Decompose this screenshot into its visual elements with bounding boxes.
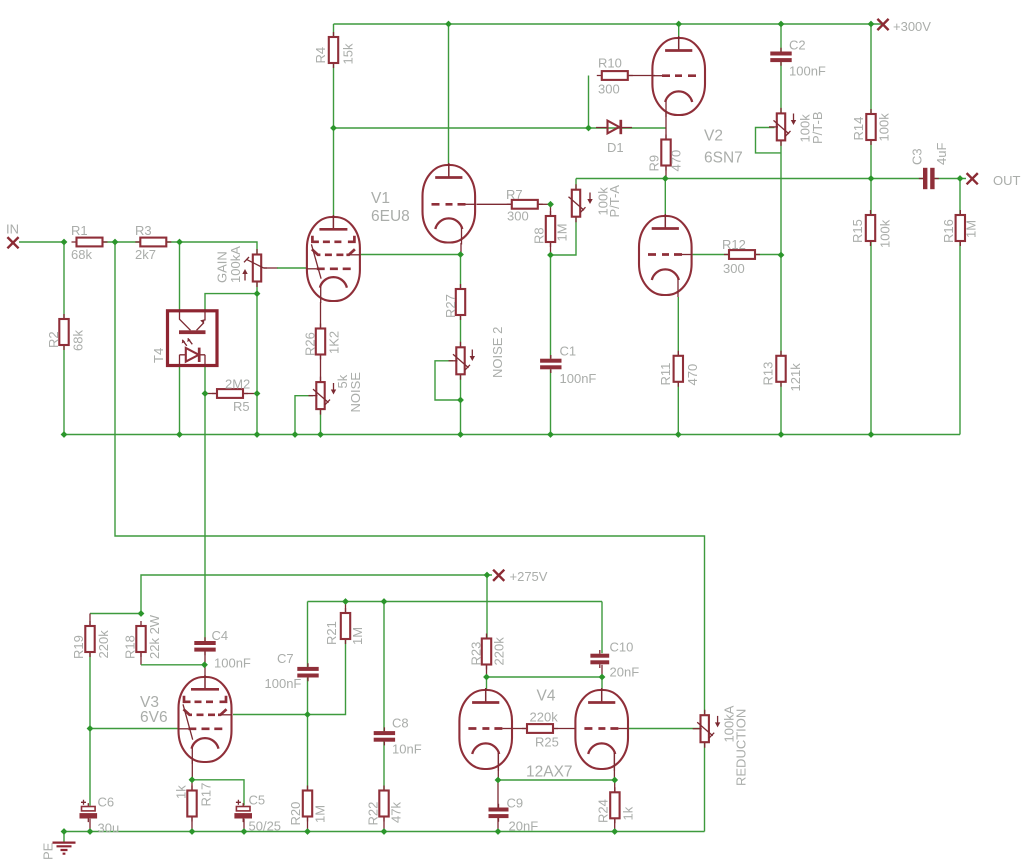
junction C10 / V4R anode bbox=[599, 674, 606, 681]
labels R16 bbox=[941, 219, 979, 243]
junction +275V node bbox=[484, 572, 491, 579]
labels R15 bbox=[850, 219, 893, 248]
wire +275V rail bbox=[90, 575, 492, 614]
wire V1P g3 to R27 node bbox=[360, 254, 461, 256]
potentiometer NOISE 5k bbox=[309, 377, 331, 415]
resistor R11 bbox=[674, 351, 683, 387]
tube V3 (6V6) bbox=[178, 675, 232, 764]
svg-text:C1: C1 bbox=[560, 344, 577, 359]
labels R25 bbox=[530, 710, 559, 750]
resistor R16 bbox=[956, 210, 965, 246]
wire C3 to OUT terminal bbox=[935, 178, 967, 180]
svg-text:+300V: +300V bbox=[893, 19, 931, 34]
svg-text:C2: C2 bbox=[789, 38, 806, 53]
junction V3 cathode node bbox=[189, 776, 196, 783]
svg-text:R2: R2 bbox=[46, 331, 61, 348]
potentiometer NOISE 2 bbox=[449, 342, 471, 380]
terminal OUT bbox=[967, 173, 978, 184]
wire R18 bottom pin bbox=[140, 652, 142, 665]
wire C6 bottom bbox=[89, 819, 91, 832]
labels GAIN pot bbox=[215, 246, 244, 283]
svg-text:R25: R25 bbox=[535, 735, 559, 750]
svg-text:300: 300 bbox=[507, 209, 529, 224]
capacitor C4 100nF bbox=[194, 637, 215, 655]
junction mid bus NOISE loop bbox=[292, 431, 299, 438]
labels R2 bbox=[46, 330, 86, 351]
wire V3 g1 wire bbox=[90, 728, 178, 730]
wire R19 top pin bbox=[89, 614, 91, 627]
junction mid bus NOISE pot bbox=[317, 431, 324, 438]
svg-text:2M2: 2M2 bbox=[225, 377, 250, 392]
svg-text:R5: R5 bbox=[233, 399, 250, 414]
svg-text:100nF: 100nF bbox=[789, 64, 826, 79]
labels R27 bbox=[443, 294, 458, 318]
labels C2 bbox=[789, 38, 826, 79]
adjust arrow P/T-B bbox=[791, 114, 796, 126]
resistor R2 bbox=[59, 314, 68, 350]
wire +275V to R23 bbox=[486, 575, 488, 638]
tube V1 triode section (6EU8) bbox=[423, 163, 476, 245]
svg-text:R19: R19 bbox=[71, 635, 86, 659]
resistor R22 bbox=[379, 786, 388, 822]
svg-text:30u: 30u bbox=[98, 821, 120, 836]
resistor R14 bbox=[866, 109, 875, 145]
potentiometer REDUCTION 100kA bbox=[693, 710, 715, 748]
svg-text:2k7: 2k7 bbox=[135, 247, 156, 262]
junction NOISE2 loop bbox=[457, 397, 464, 404]
resistor R20 bbox=[303, 786, 312, 822]
wire screen rail y601 bbox=[308, 601, 603, 603]
wire GAIN wiper to V1 g1 bbox=[277, 267, 307, 269]
labels R21 bbox=[324, 621, 365, 645]
tube V1 pentode section (6EU8) bbox=[306, 215, 360, 303]
labels R18 bbox=[123, 614, 163, 659]
junction R18/R19 tops bbox=[138, 610, 145, 617]
svg-text:R15: R15 bbox=[850, 219, 865, 243]
labels R4 bbox=[313, 43, 356, 64]
svg-text:R14: R14 bbox=[851, 117, 866, 141]
svg-text:C3: C3 bbox=[910, 148, 925, 165]
wire C2 to P/T-B bbox=[780, 62, 782, 114]
junction V2A anode / top bus bbox=[675, 21, 682, 28]
junction ground bus PE bbox=[61, 828, 68, 835]
svg-text:1M: 1M bbox=[313, 805, 328, 823]
labels R1 bbox=[71, 223, 92, 262]
labels R13 bbox=[761, 362, 804, 392]
labels R20 bbox=[288, 802, 328, 826]
wire C10 bottom bbox=[601, 665, 603, 677]
capacitor C9 20nF bbox=[489, 804, 509, 822]
svg-text:T4: T4 bbox=[151, 348, 166, 363]
wire V1 triode anode drop bbox=[448, 24, 450, 166]
potentiometer GAIN 100kA bbox=[244, 249, 267, 287]
adjust arrow NOISE 2 bbox=[470, 350, 475, 362]
wire rail to C7 bbox=[307, 602, 309, 668]
wire V3 cathode to C5 bbox=[192, 780, 244, 806]
labels R5 bbox=[225, 377, 250, 415]
wire R13 bottom bbox=[780, 382, 782, 435]
wire PE stub bbox=[63, 832, 65, 842]
junction GAIN bottom node bbox=[254, 290, 261, 297]
resistor R1 bbox=[72, 238, 108, 247]
wire V4R cathode drop bbox=[613, 753, 615, 780]
potentiometer P/T-A 100k bbox=[569, 184, 586, 222]
capacitor C2 100nF bbox=[770, 48, 791, 66]
wire V4L anode drop bbox=[486, 677, 488, 691]
junction ground bus R22 bbox=[381, 828, 388, 835]
adjust arrow REDUCTION bbox=[715, 716, 720, 728]
svg-text:1k: 1k bbox=[174, 785, 189, 799]
svg-text:R22: R22 bbox=[366, 802, 381, 826]
wire +300V top bus bbox=[334, 23, 885, 25]
svg-text:68k: 68k bbox=[71, 247, 92, 262]
wire GAIN wiper lead bbox=[264, 267, 279, 269]
labels C3 bbox=[910, 143, 950, 165]
junction R2 / input bbox=[61, 239, 68, 246]
svg-text:100k: 100k bbox=[877, 113, 892, 142]
svg-text:REDUCTION: REDUCTION bbox=[734, 709, 749, 786]
resistor R13 bbox=[776, 351, 785, 387]
svg-text:300: 300 bbox=[598, 82, 620, 97]
wire V4R grid to REDUCTION wiper bbox=[629, 728, 701, 730]
junction C7 / V3 g3 wire bbox=[304, 711, 311, 718]
wire R1-R3 segment bbox=[103, 241, 140, 243]
junction ground bus C9 bbox=[495, 828, 502, 835]
wire R10 to V2A grid bbox=[629, 75, 656, 77]
junction T4 / input bbox=[176, 239, 183, 246]
wire C2 top drop bbox=[780, 24, 782, 52]
svg-text:V1: V1 bbox=[371, 190, 390, 207]
wire mid ground-return bus bbox=[64, 434, 960, 436]
terminal +300V bbox=[877, 19, 888, 30]
junction C2 / top bus bbox=[778, 21, 785, 28]
wire R27 to NOISE2 bbox=[460, 315, 462, 347]
svg-text:R20: R20 bbox=[288, 802, 303, 826]
adjust arrow NOISE 5k bbox=[331, 383, 336, 395]
svg-text:12AX7: 12AX7 bbox=[526, 764, 573, 781]
terminal +275V bbox=[493, 570, 504, 581]
svg-text:PE: PE bbox=[41, 842, 56, 860]
junction R7/R8 node bbox=[547, 201, 554, 208]
resistor R15 bbox=[866, 210, 875, 246]
wire C5 bottom bbox=[243, 819, 245, 832]
wire V2B cathode to R11 bbox=[677, 297, 679, 356]
labels R7 bbox=[506, 187, 529, 224]
svg-text:P/T-A: P/T-A bbox=[607, 185, 622, 218]
svg-text:15k: 15k bbox=[341, 43, 356, 64]
svg-text:R16: R16 bbox=[941, 219, 956, 243]
wire R15 bottom bbox=[870, 241, 872, 435]
label +300V bbox=[893, 19, 931, 34]
svg-text:R7: R7 bbox=[506, 187, 523, 202]
resistor R12 bbox=[724, 250, 760, 259]
resistor R19 bbox=[85, 621, 94, 657]
wire R25 to V4R grid bbox=[553, 728, 576, 730]
wire R8 node to C1 bbox=[550, 255, 552, 359]
labels R26 bbox=[303, 331, 342, 356]
junction mid bus T4 bbox=[176, 431, 183, 438]
junction mid bus R5 bbox=[254, 431, 261, 438]
wire GAIN bottom bbox=[256, 281, 258, 294]
wire IN to R1 bbox=[19, 241, 63, 243]
capacitor C6 30u (electrolytic) bbox=[80, 800, 98, 822]
wire NOISE2 bottom bbox=[460, 374, 462, 435]
junction R8/P-T-A node bbox=[547, 252, 554, 259]
resistor R8 bbox=[546, 211, 555, 247]
wire C9 top bbox=[497, 780, 499, 808]
svg-text:C4: C4 bbox=[212, 628, 229, 643]
wire sidechain feed x115 bbox=[115, 242, 705, 716]
wire NOISE2 wiper loop bbox=[435, 361, 461, 400]
wire R2 bottom bbox=[63, 345, 65, 435]
svg-text:C9: C9 bbox=[507, 796, 524, 811]
junction C4/R18/V3 anode bbox=[201, 661, 208, 668]
ground PE bbox=[53, 843, 76, 854]
labels R8 bbox=[532, 223, 570, 244]
wire T4 LED cathode to C4 bbox=[204, 367, 206, 641]
svg-text:6SN7: 6SN7 bbox=[704, 150, 743, 167]
svg-text:P/T-B: P/T-B bbox=[810, 111, 825, 144]
svg-text:OUT: OUT bbox=[993, 173, 1021, 188]
labels R23 bbox=[469, 637, 507, 666]
wire V1T cathode drop bbox=[460, 243, 462, 255]
wire plate-feed bus y128 bbox=[334, 127, 667, 129]
svg-text:100kA: 100kA bbox=[228, 246, 243, 283]
wire V4 anode rail y677 bbox=[487, 676, 603, 678]
labels P/T-A pot bbox=[596, 185, 623, 218]
junction mid bus R11 bbox=[675, 431, 682, 438]
svg-text:R11: R11 bbox=[658, 363, 673, 386]
svg-text:4uF: 4uF bbox=[934, 143, 949, 165]
wire C8 to R22 bbox=[383, 741, 385, 790]
svg-text:R9: R9 bbox=[647, 155, 662, 172]
svg-text:100k: 100k bbox=[878, 219, 893, 248]
resistor R27 bbox=[456, 284, 465, 320]
tube V2 triode B (6SN7) bbox=[639, 214, 692, 297]
junction mid bus R15 bbox=[868, 431, 875, 438]
svg-text:121k: 121k bbox=[788, 363, 803, 392]
svg-text:470: 470 bbox=[685, 364, 700, 386]
wire R11 bottom bbox=[677, 382, 679, 435]
wire R14 top drop bbox=[870, 24, 872, 114]
junction R10 / y128 bbox=[585, 125, 592, 132]
junction V1T anode / top bus bbox=[445, 21, 452, 28]
svg-text:NOISE 2: NOISE 2 bbox=[490, 327, 505, 378]
labels R12 bbox=[722, 237, 746, 276]
svg-text:R3: R3 bbox=[135, 223, 152, 238]
svg-text:R21: R21 bbox=[324, 621, 339, 645]
resistor R25 bbox=[522, 724, 558, 733]
junction ground bus R17 bbox=[189, 828, 196, 835]
svg-text:R24: R24 bbox=[596, 799, 611, 823]
junction C8 / screen rail bbox=[381, 598, 388, 605]
labels R22 bbox=[366, 802, 404, 826]
labels C6 bbox=[98, 795, 120, 836]
resistor R5 bbox=[212, 389, 248, 398]
wire cathode link y780 bbox=[498, 779, 615, 781]
junction V4R cathode node bbox=[611, 777, 618, 784]
svg-text:6V6: 6V6 bbox=[140, 709, 168, 726]
junction R14 / top bus bbox=[868, 21, 875, 28]
resistor R3 bbox=[135, 238, 171, 247]
svg-text:100nF: 100nF bbox=[560, 371, 597, 386]
wire R8 node to P/T-A bottom bbox=[551, 217, 577, 255]
junction R5 left bbox=[202, 390, 209, 397]
svg-text:20nF: 20nF bbox=[509, 819, 539, 834]
wire R10 left vertical bbox=[588, 76, 590, 129]
svg-text:IN: IN bbox=[6, 222, 19, 237]
svg-text:47k: 47k bbox=[389, 802, 404, 823]
svg-text:220k: 220k bbox=[96, 630, 111, 659]
svg-text:C10: C10 bbox=[610, 640, 634, 655]
wire GAIN node to T4 LDR right pin bbox=[205, 294, 257, 309]
wire NOISE wiper loop bbox=[295, 396, 313, 435]
resistor R7 bbox=[507, 200, 543, 209]
wire ground bus bbox=[64, 831, 705, 833]
wire R16 top bbox=[959, 179, 961, 216]
wire V2B anode drop bbox=[664, 179, 666, 219]
labels V2 bbox=[704, 128, 743, 167]
wire R19 bottom chain bbox=[89, 652, 91, 806]
junction C3 / OUT terminal bbox=[957, 175, 964, 182]
wire C1 bottom bbox=[550, 369, 552, 434]
wire R7 to R8 node bbox=[538, 203, 551, 205]
svg-text:D1: D1 bbox=[607, 140, 624, 155]
junction ground bus C5 bbox=[241, 828, 248, 835]
wire V3 cathode drop bbox=[191, 760, 193, 780]
capacitor C8 10nF bbox=[374, 727, 395, 745]
svg-text:50/25: 50/25 bbox=[249, 819, 282, 834]
wire rail to C10 bbox=[601, 602, 603, 654]
svg-text:68k: 68k bbox=[71, 330, 86, 351]
junction V4L cathode node bbox=[495, 777, 502, 784]
wire R26 to NOISE pot bbox=[320, 355, 322, 383]
svg-text:C6: C6 bbox=[98, 795, 115, 810]
resistor R4 bbox=[329, 32, 338, 68]
labels R10 bbox=[598, 56, 622, 97]
wire R24 bottom bbox=[614, 819, 616, 832]
resistor R10 bbox=[597, 71, 633, 80]
wire NOISE pot bottom bbox=[320, 409, 322, 435]
label V4 bbox=[537, 688, 556, 705]
wire R12 to P/T-B chain bbox=[755, 254, 781, 256]
resistor R21 bbox=[341, 608, 350, 644]
wire R18 to C4 node bbox=[141, 664, 205, 666]
wire V2B grid to R12 bbox=[693, 254, 730, 256]
junction R4 node y128 bbox=[330, 125, 337, 132]
labels C8 bbox=[392, 716, 422, 757]
wire R17 bottom bbox=[191, 817, 193, 832]
wire R8 top pin bbox=[550, 204, 552, 216]
junction mid bus NOISE2 bbox=[457, 431, 464, 438]
tube V4 triode A (12AX7) bbox=[459, 688, 512, 771]
capacitor C10 20nF bbox=[590, 650, 609, 668]
junction ground bus R20 bbox=[304, 828, 311, 835]
svg-text:1k: 1k bbox=[621, 806, 636, 820]
junction V1P g3 / R27 bbox=[457, 251, 464, 258]
wire C9 bottom bbox=[497, 818, 499, 832]
labels R11 bbox=[658, 363, 700, 386]
label NOISE 2 pot bbox=[490, 327, 505, 378]
potentiometer P/T-B 100k bbox=[769, 108, 791, 146]
adjust arrow GAIN bbox=[242, 269, 247, 281]
wire T4 LDR left pin bbox=[179, 242, 181, 309]
wire R2 top bbox=[63, 242, 65, 319]
svg-text:100nF: 100nF bbox=[265, 676, 302, 691]
junction mid bus C1 bbox=[547, 431, 554, 438]
capacitor C3 4uF bbox=[919, 168, 939, 189]
label +275V bbox=[510, 569, 548, 584]
svg-text:220k: 220k bbox=[530, 710, 559, 725]
junction R19 / V3 g1 bbox=[87, 725, 94, 732]
adjust arrow P/T-A bbox=[587, 193, 592, 205]
junction ground bus C6 bbox=[87, 828, 94, 835]
label OUT bbox=[993, 173, 1021, 188]
junction ground bus R24 bbox=[611, 828, 618, 835]
wire R24 top pin bbox=[614, 780, 616, 793]
wire R20 bottom bbox=[307, 817, 309, 832]
terminal IN bbox=[7, 237, 18, 248]
svg-text:470: 470 bbox=[669, 150, 684, 172]
labels C9 bbox=[507, 796, 539, 834]
svg-text:R26: R26 bbox=[303, 332, 318, 356]
tube V4 triode B (12AX7) bbox=[575, 688, 628, 771]
svg-text:220k: 220k bbox=[492, 637, 507, 666]
capacitor C1 100nF bbox=[540, 355, 561, 373]
wire T4 LED anode to mid bus bbox=[179, 367, 181, 435]
resistor R18 bbox=[136, 621, 145, 657]
wire P/T-B bottom chain bbox=[780, 141, 782, 357]
wire REDUCTION bottom to ground bus bbox=[704, 742, 706, 832]
labels V3 bbox=[140, 694, 168, 726]
label T4 bbox=[151, 348, 166, 363]
svg-text:V4: V4 bbox=[537, 688, 556, 705]
wire R5 right lead bbox=[243, 393, 257, 395]
label 12AX7 bbox=[526, 764, 573, 781]
wire R4 top pin bbox=[333, 24, 335, 37]
wire R21 top pin bbox=[345, 602, 347, 613]
svg-text:R13: R13 bbox=[761, 362, 776, 386]
svg-text:R10: R10 bbox=[598, 56, 622, 71]
resistor R26 bbox=[316, 324, 325, 360]
svg-text:NOISE: NOISE bbox=[348, 372, 363, 413]
svg-text:R23: R23 bbox=[469, 642, 484, 666]
svg-text:R4: R4 bbox=[313, 47, 328, 64]
svg-text:R8: R8 bbox=[532, 227, 547, 244]
junction sidechain / input bbox=[112, 239, 119, 246]
junction R21 / screen rail bbox=[342, 598, 349, 605]
capacitor C5 50/25 (electrolytic) bbox=[234, 800, 252, 822]
svg-text:20nF: 20nF bbox=[610, 665, 640, 680]
wire C4 bottom to V3 anode bbox=[204, 651, 206, 678]
wire rail to C8 bbox=[383, 602, 385, 732]
labels P/T-B pot bbox=[798, 111, 826, 144]
svg-text:1M: 1M bbox=[964, 220, 979, 238]
junction R23 / V4L anode bbox=[483, 674, 490, 681]
wire R8 bottom bbox=[550, 242, 552, 255]
labels C10 bbox=[610, 640, 640, 680]
svg-text:R17: R17 bbox=[199, 783, 214, 807]
wire V1T grid to R7 bbox=[477, 203, 512, 205]
wire V4L cathode drop bbox=[497, 753, 499, 780]
label PE bbox=[41, 842, 56, 860]
svg-text:10nF: 10nF bbox=[392, 742, 422, 757]
junction R5 right bbox=[254, 390, 261, 397]
junction mid bus R13 bbox=[778, 431, 785, 438]
labels C4 bbox=[212, 628, 251, 671]
wire R5 left lead bbox=[205, 393, 217, 395]
svg-text:C8: C8 bbox=[392, 716, 409, 731]
